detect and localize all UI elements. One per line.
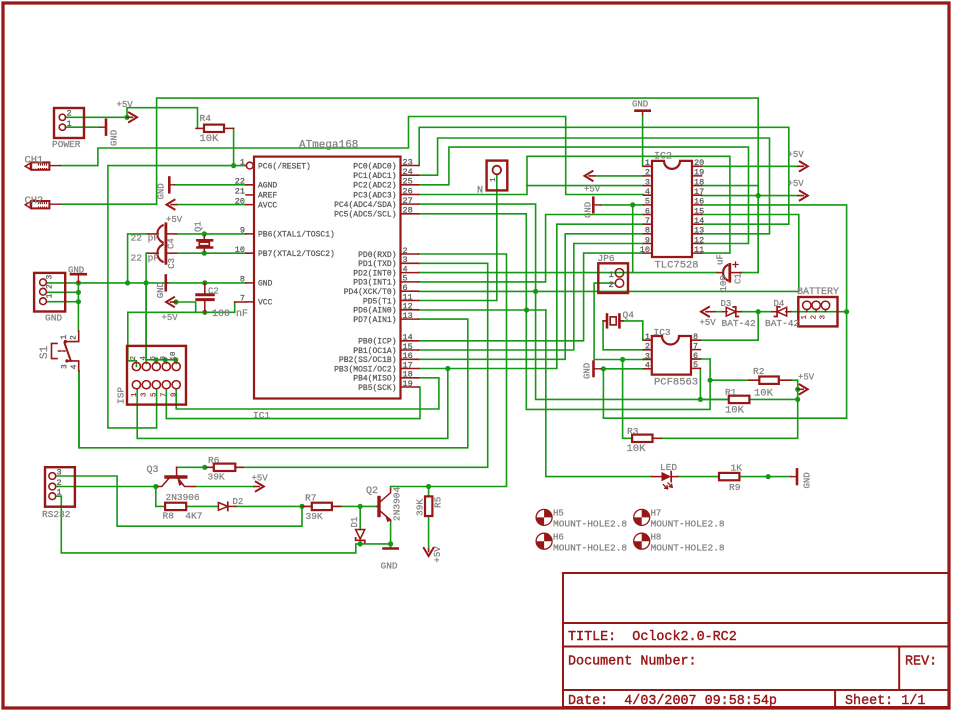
- svg-text:20: 20: [694, 158, 704, 168]
- LED arrows: [668, 483, 672, 487]
- svg-text:MOUNT-HOLE2.8: MOUNT-HOLE2.8: [651, 543, 725, 554]
- svg-text:1: 1: [801, 315, 809, 320]
- wire IC1 pin16 to IC2 pin8: [419, 234, 644, 359]
- node Q2 emitter/GND: [388, 541, 393, 546]
- wire IC2 pin3 row from pin26 vertical: [527, 185, 644, 187]
- wire IC3 pin5 down to R1 row: [699, 368, 701, 399]
- svg-text:+5V: +5V: [788, 179, 805, 189]
- wire GND connector pin1: [47, 301, 79, 303]
- wire IC1 pin23 to IC2 pin14: [419, 127, 789, 224]
- svg-text:5: 5: [693, 360, 698, 370]
- wire R1 right to column: [749, 398, 797, 400]
- svg-text:22: 22: [235, 177, 245, 187]
- svg-text:1: 1: [240, 157, 245, 167]
- jack CH2: [25, 202, 30, 208]
- svg-text:1: 1: [57, 488, 62, 498]
- svg-text:PC0(ADC0): PC0(ADC0): [353, 162, 396, 171]
- svg-text:26: 26: [403, 186, 413, 196]
- node GND rail C3/ISP: [144, 280, 149, 285]
- wire AGND row: [175, 184, 247, 186]
- svg-text:+5V: +5V: [252, 474, 269, 484]
- svg-text:PB5(SCK): PB5(SCK): [358, 384, 396, 393]
- wire D1 cathode to GND node: [360, 542, 390, 544]
- node D1 bottom: [358, 541, 363, 546]
- svg-text:2: 2: [46, 284, 55, 289]
- svg-text:PD5(T1): PD5(T1): [363, 297, 397, 306]
- svg-text:CH1: CH1: [25, 154, 44, 166]
- resistor R7: [302, 505, 341, 507]
- svg-text:Q4: Q4: [623, 309, 635, 320]
- svg-text:POWER: POWER: [52, 139, 81, 150]
- wire +5V up over to R4: [127, 108, 198, 129]
- svg-text:6: 6: [645, 206, 650, 216]
- svg-text:GND: GND: [156, 282, 166, 298]
- wire IC2 pin18 row: [702, 185, 759, 187]
- svg-text:+5V: +5V: [700, 318, 717, 328]
- svg-text:R5: R5: [433, 496, 444, 508]
- wire IC2 pin2 to +5V arrow: [595, 175, 644, 177]
- node battery right: [844, 309, 849, 314]
- wire CH2 jack up over top to IC2 pin18: [60, 98, 758, 273]
- svg-text:GND: GND: [381, 561, 398, 572]
- svg-text:PB4(MISO): PB4(MISO): [353, 375, 396, 384]
- op-amp U1 : IC1 ATmega168 body: [254, 157, 401, 399]
- wire IC1 pin28 SCL down to IC3 pin6 column: [419, 214, 711, 410]
- svg-text:PB6(XTAL1/TOSC1): PB6(XTAL1/TOSC1): [258, 231, 335, 240]
- node D3/D4: [756, 309, 761, 314]
- svg-text:uF: uF: [716, 254, 726, 265]
- svg-text:Q3: Q3: [147, 465, 159, 476]
- wire IC2 pin16 to battery and GND line: [603, 205, 846, 418]
- svg-text:AREF: AREF: [258, 192, 277, 201]
- supply +5V arrow at IC2 pin20 (right): [798, 165, 804, 167]
- ground sym above IC2 pin1: [636, 109, 650, 112]
- svg-text:+5V: +5V: [798, 373, 815, 383]
- wire pin9 row crystal: [176, 233, 246, 235]
- ground sym at C2/pin8 rail (rotated): [165, 276, 168, 291]
- node IC3 pin5/R1: [698, 397, 703, 402]
- wire R4 right down to RESET row: [233, 128, 235, 165]
- svg-text:PCF8563: PCF8563: [654, 377, 698, 389]
- IC1 right pin stubs top group: [401, 166, 419, 214]
- connector ISP body: [127, 346, 186, 405]
- svg-text:C3: C3: [167, 258, 177, 269]
- supply +5V arrow at IC2 pin2 (left): [589, 175, 595, 177]
- svg-text:PD0(RXD): PD0(RXD): [358, 251, 396, 260]
- node GND rail C2: [202, 280, 207, 285]
- svg-text:R6: R6: [208, 455, 220, 466]
- mount hole H5: [536, 509, 552, 525]
- ground sym at Q2 emitter: [384, 547, 398, 550]
- svg-text:1: 1: [46, 293, 55, 298]
- svg-text:GND: GND: [68, 265, 84, 275]
- svg-text:11: 11: [694, 245, 704, 255]
- svg-text:8: 8: [645, 226, 650, 236]
- wire R3 left up to IC3 pin3 net: [623, 360, 633, 439]
- svg-text:10: 10: [170, 351, 178, 361]
- supply +5V arrow at AVCC (left): [171, 204, 177, 206]
- svg-text:12: 12: [694, 235, 704, 245]
- IC1 right pin stubs PD group: [401, 254, 419, 319]
- wire IC2 pin5 GND row: [601, 204, 644, 206]
- svg-text:N: N: [477, 186, 483, 197]
- capacitor C4 22pF: [148, 233, 158, 235]
- wire S1 pin4 down to long rail: [78, 371, 80, 448]
- svg-text:+5V: +5V: [117, 100, 134, 110]
- svg-text:3: 3: [645, 177, 650, 187]
- svg-text:R4: R4: [200, 113, 212, 124]
- svg-text:PB2(SS/OC1B): PB2(SS/OC1B): [339, 356, 397, 365]
- svg-text:PC2(ADC2): PC2(ADC2): [353, 182, 396, 191]
- svg-text:25: 25: [403, 177, 413, 187]
- svg-text:Q1: Q1: [194, 221, 204, 232]
- svg-text:D2: D2: [233, 497, 244, 507]
- svg-text:C1: C1: [734, 273, 744, 284]
- svg-text:ISP: ISP: [116, 387, 127, 404]
- svg-text:VCC: VCC: [258, 299, 273, 308]
- svg-text:28: 28: [403, 206, 413, 216]
- svg-text:PD4(XCK/T0): PD4(XCK/T0): [344, 288, 397, 297]
- svg-text:1: 1: [67, 119, 72, 129]
- wire RS232 pin1 down and right to D1 node: [56, 496, 360, 553]
- node Q2 collector/R5: [426, 484, 431, 489]
- wire IC1 pin27 SDA down to R1 row: [419, 204, 729, 399]
- svg-text:+5V: +5V: [433, 546, 443, 563]
- wire IC1 pin5 to IC2 pin6: [419, 215, 644, 282]
- svg-text:100: 100: [719, 275, 729, 291]
- svg-text:Date: 4/03/2007 09:58:54p: Date: 4/03/2007 09:58:54p: [568, 694, 777, 709]
- svg-text:100 nF: 100 nF: [212, 309, 248, 320]
- diode D2 (cathode right): [218, 503, 227, 511]
- node IC3 pin4 GND: [601, 366, 606, 371]
- wire D3 D4 battery row: [715, 311, 847, 313]
- capacitor C3 22pF: [148, 252, 158, 254]
- LED diode: [652, 476, 662, 478]
- wire IC3 GND branch down to GND line: [602, 369, 604, 418]
- svg-text:2: 2: [57, 478, 62, 488]
- connector RS232 body: [45, 467, 75, 507]
- wire IC1 pin3 TXD down to R6/Q3 base: [243, 263, 488, 467]
- ground sym at R9 (rotated): [796, 469, 799, 484]
- svg-text:+5V: +5V: [162, 313, 179, 323]
- svg-text:22 pF: 22 pF: [131, 252, 160, 263]
- svg-text:IC3: IC3: [654, 327, 671, 338]
- wire Q3 base to R6: [177, 466, 207, 468]
- wire +5V arrow feed to dip line: [176, 302, 196, 312]
- wire IC1 pin17 MOSI to IC2 pin7: [419, 224, 644, 368]
- wire MOSI branch to ISP pin1: [137, 369, 448, 439]
- node VCC +5V arrow: [173, 299, 178, 304]
- svg-text:10: 10: [640, 245, 650, 255]
- wire IC3 pin8 to D3/D4 junction: [700, 312, 758, 341]
- svg-text:GND: GND: [803, 472, 813, 488]
- svg-text:21: 21: [235, 187, 245, 197]
- wire POWER pin1 to GND: [65, 126, 99, 128]
- svg-text:2N3906: 2N3906: [166, 492, 201, 503]
- resistor R2: [749, 379, 791, 381]
- wire C3 left to GND rail and ISP pins bus: [146, 253, 148, 360]
- svg-text:PB1(OC1A): PB1(OC1A): [353, 347, 396, 356]
- svg-text:GND: GND: [632, 99, 648, 109]
- svg-text:D3: D3: [721, 299, 732, 309]
- resistor R9: [719, 473, 739, 480]
- svg-text:3: 3: [61, 364, 70, 369]
- svg-text:PC3(ADC3): PC3(ADC3): [353, 191, 396, 200]
- node RESET/R4: [231, 163, 236, 168]
- svg-text:9: 9: [171, 392, 179, 397]
- wire Q3 collector branch down to R8: [156, 487, 165, 507]
- svg-text:R3: R3: [627, 426, 639, 437]
- svg-text:7: 7: [240, 294, 245, 304]
- svg-text:2: 2: [67, 109, 72, 119]
- svg-text:2N3904: 2N3904: [392, 486, 403, 521]
- svg-text:3: 3: [46, 275, 55, 280]
- title block frame: [563, 573, 948, 707]
- svg-text:9: 9: [645, 235, 650, 245]
- node R1 +5V: [795, 397, 800, 402]
- svg-text:+5V: +5V: [584, 185, 601, 195]
- node C1 +5V tap: [756, 193, 761, 198]
- svg-text:14: 14: [694, 216, 704, 226]
- wire RS232 pin3 to R7 node: [56, 476, 302, 526]
- svg-text:GND: GND: [583, 363, 593, 379]
- wire ISP top pin stubs: [146, 360, 176, 364]
- wire R2 row: [710, 379, 798, 381]
- svg-text:2: 2: [70, 335, 79, 340]
- svg-text:PD6(AIN0): PD6(AIN0): [353, 307, 396, 316]
- node MOSI branch: [445, 366, 450, 371]
- wire GND top symbol to IC2 pin1: [642, 115, 644, 167]
- svg-text:2: 2: [645, 168, 650, 178]
- svg-text:Sheet: 1/1: Sheet: 1/1: [845, 694, 925, 709]
- wire JP6 pin2 to IC3 pin3: [594, 283, 643, 359]
- IC1 pin1 inversion circle: [246, 162, 253, 169]
- node IC3 pin3/R3: [620, 357, 625, 362]
- svg-text:2: 2: [130, 356, 138, 361]
- mount hole H7: [634, 509, 650, 525]
- node SDA crossing pin6 row: [533, 289, 538, 294]
- wire R7 to Q2 base: [332, 505, 377, 507]
- svg-text:8: 8: [160, 356, 168, 361]
- node R9/GND: [766, 474, 771, 479]
- node Q2 base/D1: [358, 504, 363, 509]
- svg-text:1: 1: [645, 332, 650, 342]
- crystal Q1: [203, 236, 205, 251]
- svg-text:23: 23: [403, 157, 413, 167]
- svg-text:17: 17: [694, 187, 704, 197]
- node C2 bottom: [202, 310, 207, 315]
- wire CH1 jack to IC2 pin4: [60, 117, 643, 195]
- node GND rail C4: [125, 280, 130, 285]
- wire AVCC row: [177, 204, 247, 206]
- IC2 right pin stubs: [692, 166, 702, 253]
- node IC2 pin5 net: [630, 202, 635, 207]
- svg-text:GND: GND: [157, 183, 167, 199]
- wire GND connector junction down to S1 pin2: [77, 283, 79, 331]
- svg-text:PC4(ADC4/SDA): PC4(ADC4/SDA): [334, 201, 396, 210]
- connector N body: [487, 161, 508, 191]
- svg-text:BAT-42: BAT-42: [722, 318, 757, 329]
- svg-text:7: 7: [161, 392, 169, 397]
- svg-text:4: 4: [645, 361, 650, 371]
- svg-text:13: 13: [694, 226, 704, 236]
- svg-text:R1: R1: [725, 387, 737, 398]
- svg-text:10: 10: [235, 245, 245, 255]
- svg-text:H5: H5: [553, 509, 564, 519]
- svg-text:8: 8: [240, 275, 245, 285]
- op-amp U2 : IC2 TLC7528 body with notch: [652, 161, 692, 257]
- connector POWER body: [54, 108, 84, 138]
- svg-text:C4: C4: [167, 238, 177, 249]
- svg-text:Q2: Q2: [366, 486, 378, 497]
- svg-text:GND: GND: [45, 312, 62, 323]
- IC1 right pin stubs PB group: [401, 341, 419, 387]
- svg-text:GND: GND: [110, 130, 120, 146]
- svg-text:PD2(INT0): PD2(INT0): [353, 269, 396, 278]
- wire R2/+5V column down to R3: [661, 380, 798, 438]
- wire IC2 pin20 to +5V arrow: [702, 165, 798, 167]
- wire IC1 pin2 RXD down to Q2 collector: [391, 254, 507, 487]
- ground sym above GND connector: [71, 273, 86, 276]
- svg-text:GND: GND: [258, 280, 273, 289]
- wire ISP pin2 +5V drop: [128, 302, 235, 367]
- svg-text:3: 3: [141, 392, 149, 397]
- svg-text:H6: H6: [553, 533, 564, 543]
- svg-text:10K: 10K: [200, 133, 220, 145]
- wire N connector to IC1 pin11: [419, 174, 497, 300]
- IC3 left pin stubs: [644, 340, 652, 369]
- svg-text:IC1: IC1: [253, 410, 270, 421]
- node pin12 row SCL crossing: [524, 307, 529, 312]
- wire D2 to R7 node: [236, 505, 312, 507]
- wire R5 bottom to +5V arrow: [428, 516, 430, 549]
- wire ISP pin4 GND drop from rail: [145, 283, 147, 360]
- svg-text:20: 20: [235, 196, 245, 206]
- connector GND (3 pin) body: [34, 273, 65, 312]
- transistor Q2 2N3904 NPN: [377, 498, 380, 516]
- wire C1 plus up to +5V row: [633, 196, 759, 273]
- svg-text:3: 3: [57, 467, 62, 477]
- supply +5V arrow at D3 (left): [706, 311, 715, 313]
- svg-text:AVCC: AVCC: [258, 201, 277, 210]
- svg-text:REV:: REV:: [905, 655, 937, 670]
- op-amp U3 : IC3 PCF8563 body with notch: [652, 336, 691, 375]
- svg-text:GND: GND: [584, 202, 594, 218]
- wire IC2 pin17 to +5V arrow with C1 tap: [702, 195, 798, 197]
- supply +5V arrow at IC2 pin17 (right): [798, 195, 804, 197]
- svg-text:19: 19: [694, 168, 704, 178]
- wire IC1 pin4 to JP6 pin1 and IC2 pin5 net: [419, 205, 633, 273]
- svg-text:PC6(/RESET): PC6(/RESET): [258, 162, 311, 171]
- svg-text:R8 4K7: R8 4K7: [163, 510, 203, 521]
- svg-text:9: 9: [240, 226, 245, 236]
- wire RESET row CH1-area to IC1 pin1 and down to ISP pin5: [108, 166, 246, 428]
- wire RS232 pin2 to Q3: [56, 486, 158, 488]
- wire IC1 pin26 to IC2 pin11: [419, 156, 730, 253]
- svg-text:15: 15: [694, 206, 704, 216]
- wire IC1 pin6 to IC2 pin15: [419, 215, 799, 292]
- wire IC1 pin19 SCK to ISP pin7: [166, 387, 420, 419]
- wire IC1 pin13 down to S1: [79, 319, 468, 448]
- crystal Q4: [603, 320, 623, 322]
- svg-text:H7: H7: [651, 509, 662, 519]
- node R2 left: [708, 378, 713, 383]
- svg-text:13: 13: [403, 311, 413, 321]
- IC3 right pin stubs: [691, 340, 700, 368]
- transistor Q3 2N3906 PNP: [166, 475, 186, 478]
- supply +5V arrow at Q3 emitter (right): [254, 486, 259, 488]
- wire IC1 pin25 to IC2 pin12: [419, 147, 749, 243]
- svg-text:PB3(MOSI/OC2): PB3(MOSI/OC2): [334, 365, 396, 374]
- svg-text:LED: LED: [660, 462, 677, 473]
- svg-text:5: 5: [645, 197, 650, 207]
- svg-text:1: 1: [131, 392, 139, 397]
- svg-text:JP6: JP6: [598, 253, 615, 264]
- wire IC1 pin12 row to LED column: [419, 309, 546, 311]
- svg-text:PD3(INT1): PD3(INT1): [353, 279, 396, 288]
- switch S1: [52, 343, 58, 358]
- node GND rail S1: [76, 280, 81, 285]
- wire Q4 right to IC3 pin1: [620, 321, 643, 340]
- wire GND rail right segment to IC1 pin8: [168, 282, 246, 284]
- svg-text:RS232: RS232: [42, 509, 71, 520]
- wire IC1 pin14 to IC2 pin10: [419, 253, 644, 341]
- svg-text:4: 4: [70, 364, 79, 369]
- svg-text:10K: 10K: [754, 388, 774, 400]
- svg-text:39K: 39K: [208, 471, 225, 482]
- svg-text:PB7(XTAL2/TOSC2): PB7(XTAL2/TOSC2): [258, 250, 335, 259]
- svg-text:19: 19: [403, 379, 413, 389]
- svg-text:16: 16: [694, 197, 704, 207]
- wire IC1 pin15 to IC2 pin9: [419, 244, 644, 351]
- connector JP6 body: [598, 263, 628, 293]
- resistor R8: [165, 503, 186, 510]
- connector BATTERY body: [798, 297, 837, 326]
- mount hole H6: [536, 533, 552, 549]
- diode D4 (schottky, cathode left): [772, 311, 777, 313]
- node R6 left: [202, 465, 207, 470]
- node ISP bus pins: [154, 357, 159, 362]
- wire ISP top pins bus: [146, 359, 176, 361]
- diode D3 (schottky, cathode right): [723, 311, 727, 313]
- svg-text:R2: R2: [753, 366, 765, 377]
- svg-text:TITLE: Oclock2.0-RC2: TITLE: Oclock2.0-RC2: [568, 630, 737, 645]
- svg-text:2: 2: [810, 315, 818, 320]
- wire GND connector pin2: [47, 291, 79, 293]
- ground sym at IC3 pin4 (rotated): [592, 362, 595, 376]
- svg-text:MOUNT-HOLE2.8: MOUNT-HOLE2.8: [553, 543, 627, 554]
- wire IC3 pin4 GND row: [601, 368, 644, 370]
- svg-text:MOUNT-HOLE2.8: MOUNT-HOLE2.8: [651, 519, 725, 530]
- wire Q2 collector R5: [391, 487, 429, 497]
- supply +5V arrow at POWER (right): [127, 116, 133, 118]
- svg-text:BAT-42: BAT-42: [765, 318, 800, 329]
- ground sym at IC2 pin5 (rotated): [592, 198, 595, 212]
- svg-text:PD7(AIN1): PD7(AIN1): [353, 316, 396, 325]
- resistor R4: [196, 127, 234, 129]
- svg-text:1: 1: [490, 177, 498, 182]
- svg-text:4: 4: [645, 187, 650, 197]
- svg-text:3: 3: [820, 315, 828, 320]
- ground sym at POWER (rotated): [100, 126, 105, 128]
- diode D1 zener (vertical, cathode down): [356, 530, 365, 540]
- IC1 left pin stubs: [246, 166, 254, 302]
- svg-text:39K: 39K: [306, 511, 323, 522]
- resistor R6: [207, 466, 244, 468]
- svg-text:18: 18: [694, 177, 704, 187]
- svg-text:IC2: IC2: [654, 151, 672, 162]
- svg-text:10K: 10K: [627, 443, 647, 455]
